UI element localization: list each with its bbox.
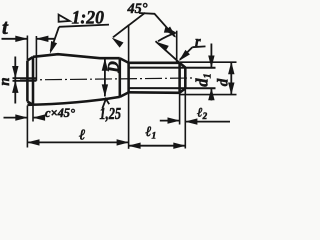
- svg-text:ℓ: ℓ: [79, 128, 85, 144]
- svg-text:n: n: [0, 77, 13, 85]
- svg-text:d: d: [215, 78, 231, 86]
- svg-text:ℓ1: ℓ1: [146, 125, 157, 142]
- svg-text:1:20: 1:20: [72, 7, 105, 28]
- svg-text:45°: 45°: [127, 1, 148, 17]
- svg-text:D: D: [105, 61, 122, 74]
- svg-text:r: r: [195, 34, 201, 50]
- svg-text:d1: d1: [192, 73, 213, 87]
- svg-text:ℓ2: ℓ2: [197, 105, 208, 122]
- svg-text:t: t: [2, 15, 9, 39]
- svg-text:1,25: 1,25: [100, 104, 122, 123]
- svg-text:c×45°: c×45°: [45, 105, 76, 120]
